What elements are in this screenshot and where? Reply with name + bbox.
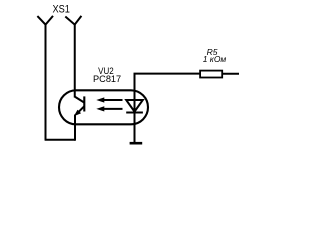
emitter diagonal with arrow	[77, 106, 85, 114]
optocoupler body VU2	[59, 90, 148, 124]
wire emitter down	[74, 115, 76, 141]
svg-text:1 кОм: 1 кОм	[203, 54, 227, 64]
svg-text:PC817: PC817	[93, 74, 121, 84]
light arrow 1	[96, 97, 122, 102]
wire pin2 down to collector	[74, 24, 76, 97]
connector XS1 pin 1	[37, 16, 53, 25]
connector XS1 pin 2	[65, 16, 81, 25]
wire LED anode up	[134, 74, 136, 113]
wire pin1 down	[45, 24, 47, 140]
LED (inside VU2)	[126, 100, 143, 113]
wire bottom left	[45, 139, 75, 141]
wire resistor right	[222, 73, 239, 75]
phototransistor (inside VU2)	[74, 96, 85, 116]
collector diagonal	[75, 97, 85, 103]
ground	[130, 142, 143, 145]
cathode bar	[126, 111, 143, 113]
base bar	[83, 96, 85, 111]
svg-text:XS1: XS1	[52, 4, 70, 16]
light arrow 2	[96, 106, 122, 111]
resistor R5 body	[200, 71, 222, 78]
wire LED cathode down	[134, 113, 136, 144]
wire to resistor	[135, 74, 201, 100]
